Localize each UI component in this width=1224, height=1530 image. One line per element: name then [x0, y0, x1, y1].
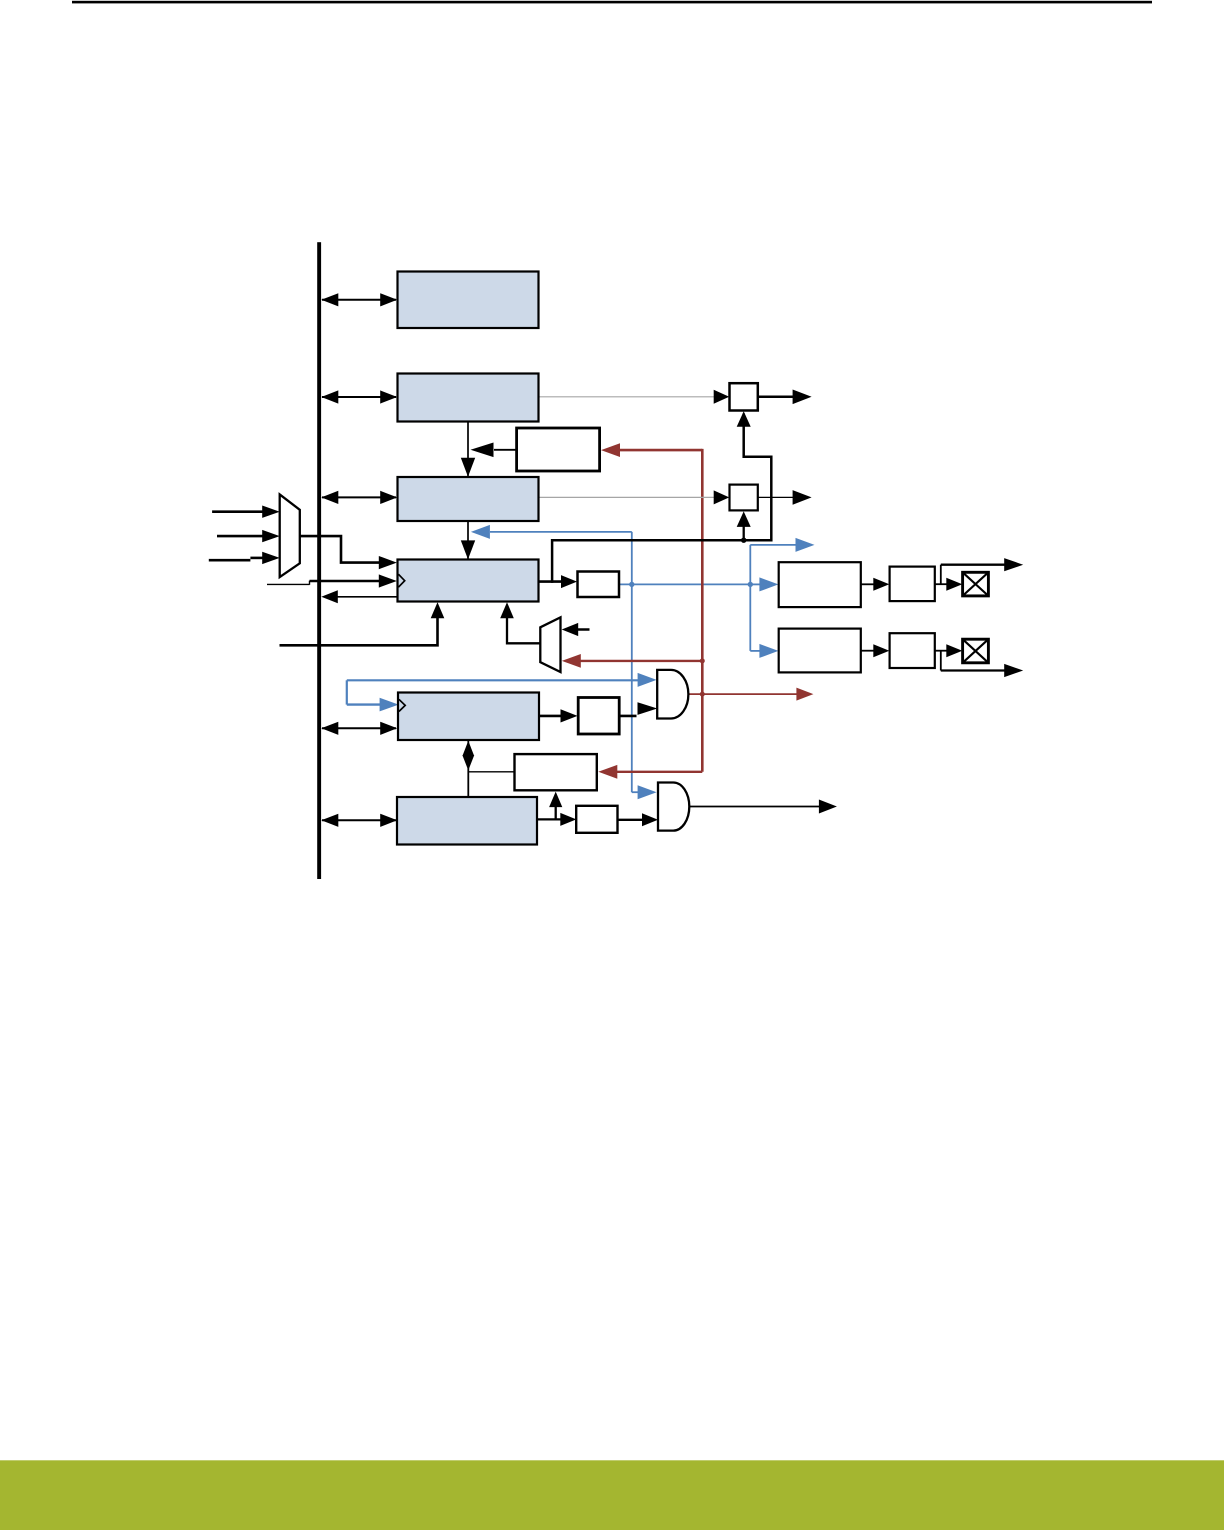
box W6	[515, 754, 597, 790]
wire branch to W4	[743, 514, 745, 540]
wire mux input 3	[209, 559, 251, 562]
wire B4 bottom input long	[280, 607, 438, 645]
wire external clock arrow into B4	[310, 580, 382, 583]
wire blue loop arrow into box B5 clock	[347, 703, 382, 705]
wire B5 to W5	[539, 715, 561, 718]
wire W7 to AND gate G2 lower input	[618, 819, 644, 821]
box W4	[730, 485, 758, 511]
mux M1	[280, 494, 300, 577]
wire mux M1 output into B4	[300, 536, 380, 563]
wire S1 to X1	[935, 583, 947, 585]
wire gray box B2 to W3	[539, 396, 716, 398]
junction blue dot B	[748, 582, 753, 587]
wire blue reload arrow to counter load	[490, 531, 632, 533]
wire B2 down to B3	[467, 422, 469, 476]
wire blue loop to AND gate G1 top input	[347, 679, 642, 681]
box S2	[890, 633, 935, 668]
register box B6	[397, 797, 537, 845]
wire blue right vertical	[749, 545, 751, 651]
wire bidir bus-B5	[322, 727, 396, 729]
wire S2 dropper	[940, 651, 942, 671]
register box B2	[398, 374, 539, 422]
wire W3 output arrow	[758, 396, 794, 399]
junction red dot B	[700, 692, 705, 697]
pad X1 cross	[963, 572, 989, 596]
clock chevron on B5	[399, 699, 405, 711]
wire S2 to X2	[935, 650, 947, 652]
wire red vertical	[701, 449, 704, 772]
wire link to W6	[468, 771, 515, 773]
register box B3	[398, 477, 539, 521]
wire R1 to S1	[861, 583, 874, 585]
box W5	[578, 698, 619, 735]
wire red output of AND gate G1	[688, 693, 798, 695]
wire B4 output stub	[539, 580, 563, 583]
wire bidir bus-B3	[322, 496, 396, 498]
wire blue vertical mid	[631, 532, 633, 792]
wire top-right output arrow	[941, 564, 1006, 566]
AND gate G1	[657, 670, 688, 719]
junction black dot	[741, 538, 746, 543]
wire B4 output riser	[552, 414, 771, 583]
wire blue top dangling arrow	[750, 544, 798, 546]
double arrowhead diamond	[462, 741, 474, 756]
pad box X2	[963, 639, 989, 663]
box W7	[576, 806, 617, 833]
mux M2	[540, 617, 560, 672]
wire blue elbow to AND gate G2 top input	[632, 791, 642, 793]
wire S1 riser	[940, 565, 942, 585]
junction red dot A	[700, 658, 705, 663]
wire blue arrow into box R1	[750, 583, 764, 585]
box R1	[779, 562, 861, 607]
wire bidir bus-B1	[322, 299, 396, 301]
box W3	[730, 383, 758, 410]
wire red arrow into box W1	[620, 449, 702, 452]
box W2	[578, 572, 620, 598]
wire mux input 1	[212, 510, 264, 513]
AND gate G2	[658, 783, 689, 831]
wire external clock thin	[267, 583, 310, 585]
wire W4 output arrow	[758, 496, 797, 498]
wire B6 output	[537, 818, 561, 820]
wire B5 to B6 vertical	[467, 740, 469, 797]
wire mux input 2	[217, 535, 264, 538]
wire red arrow into box W6	[615, 771, 702, 773]
register box B1	[398, 272, 539, 329]
register box B4 counter	[398, 560, 539, 602]
box W1	[517, 428, 600, 471]
wire riser into W6 bottom	[555, 796, 557, 819]
footer green bar	[0, 1460, 1224, 1530]
wire mux M2 output into B4 bottom	[507, 608, 540, 644]
junction blue dot A	[629, 582, 634, 587]
wire blue loop vertical	[346, 680, 348, 704]
wire W5 to AND gate G1 lower input	[620, 715, 637, 718]
wire bidir bus-B2	[322, 396, 396, 398]
box R2	[779, 629, 861, 673]
pad box X1	[963, 572, 989, 596]
wire mux M2 top input	[578, 628, 590, 631]
box S1	[890, 567, 935, 602]
wire red arrow into mux M2 lower input	[580, 660, 702, 662]
wire B3 down to B4	[467, 521, 469, 559]
bus vertical line	[317, 242, 321, 879]
clock chevron on B4	[398, 574, 404, 587]
wire blue compare-out horizontal	[619, 583, 750, 585]
pad X2 cross	[963, 639, 989, 663]
wire G2 output arrow	[689, 806, 819, 808]
register box B5	[398, 693, 539, 741]
wire R2 to S2	[861, 650, 874, 652]
wire W1 left arrow	[494, 449, 517, 451]
wire bottom-right output arrow	[941, 669, 1006, 671]
wire B4 to bus left arrow	[336, 596, 398, 598]
wire bidir bus-B6	[322, 819, 396, 821]
wire gray box B3 to W4	[539, 496, 716, 498]
header rule	[72, 1, 1152, 4]
wire blue arrow into box R2	[750, 650, 764, 652]
